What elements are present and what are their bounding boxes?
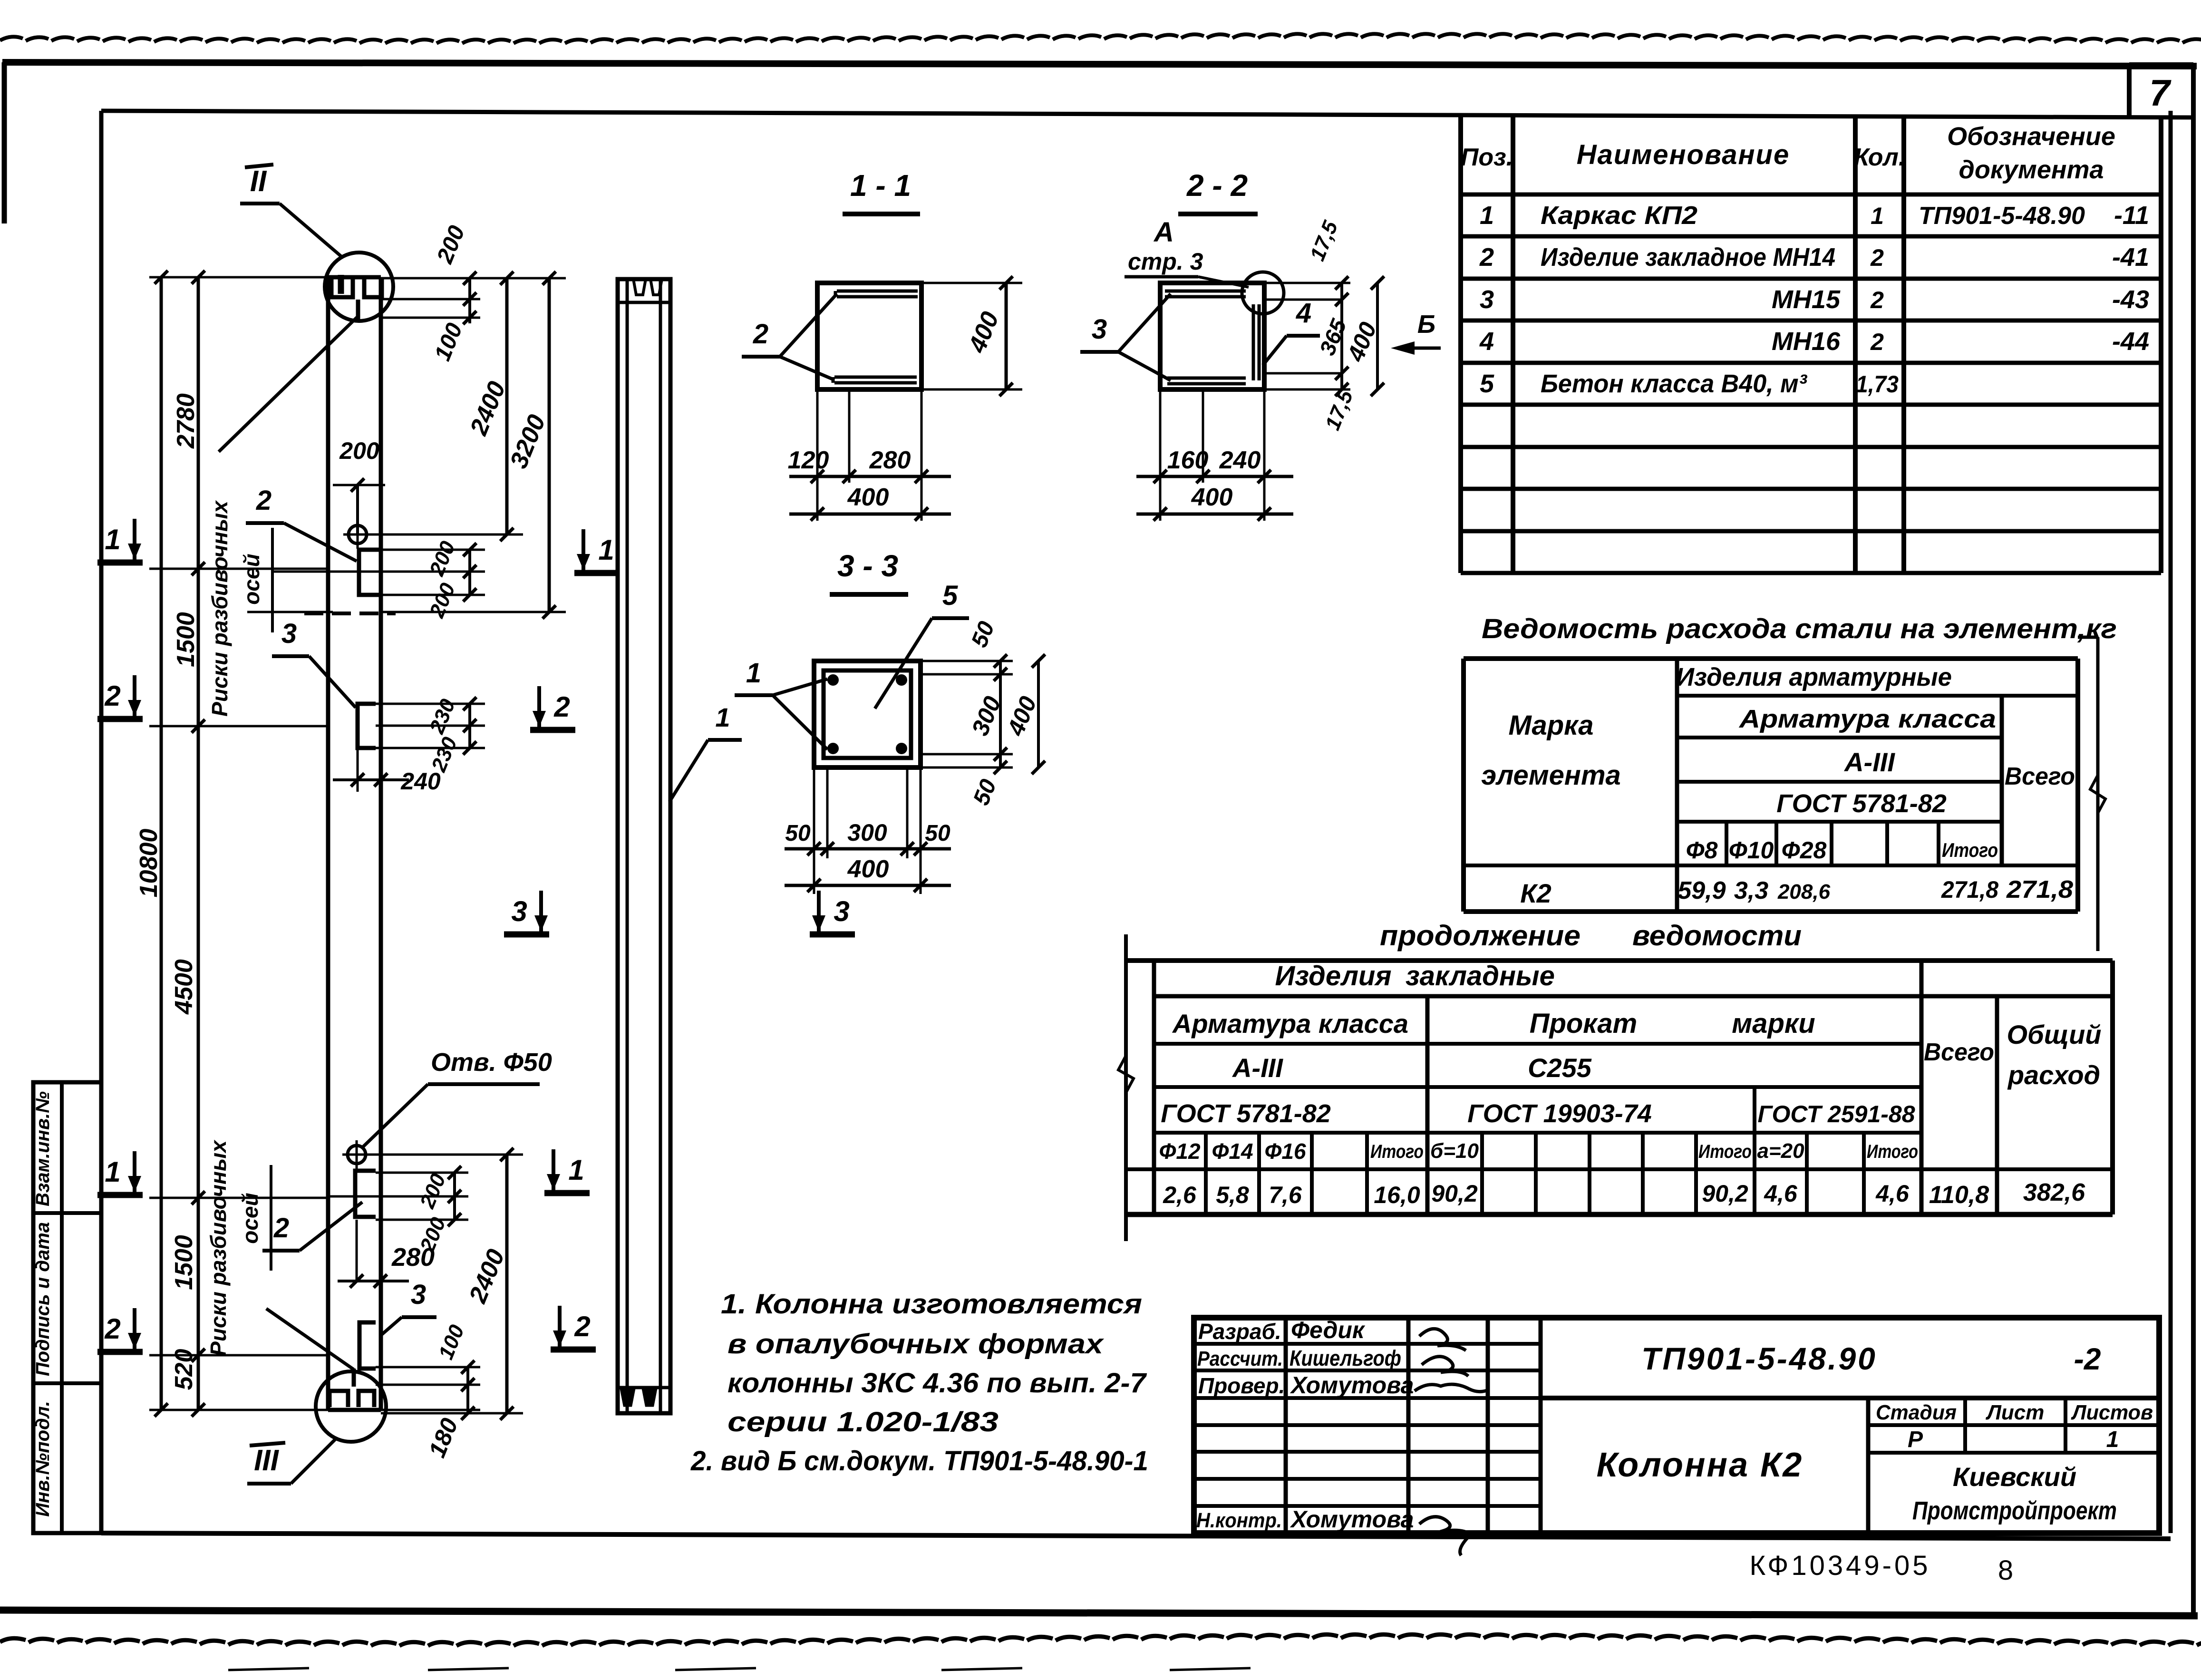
- svg-text:колонны 3КС 4.36 по вып. 2: колонны 3КС 4.36 по вып. 2-7: [727, 1368, 1147, 1398]
- svg-text:16,0: 16,0: [1374, 1182, 1420, 1208]
- svg-text:Инв.№подл.: Инв.№подл.: [32, 1401, 53, 1517]
- svg-text:продолжение: продолжение: [1380, 920, 1580, 952]
- svg-text:Н.контр.: Н.контр.: [1196, 1509, 1282, 1532]
- svg-text:7,6: 7,6: [1269, 1182, 1302, 1208]
- svg-text:Листов: Листов: [2071, 1401, 2153, 1424]
- svg-text:400: 400: [847, 855, 889, 883]
- svg-text:2: 2: [1870, 329, 1884, 355]
- svg-text:4: 4: [1479, 327, 1494, 356]
- svg-text:марки: марки: [1732, 1008, 1815, 1039]
- svg-text:240: 240: [400, 768, 441, 795]
- svg-text:закладные: закладные: [1406, 961, 1555, 991]
- svg-text:3: 3: [834, 895, 849, 927]
- svg-text:осей: осей: [239, 554, 264, 604]
- svg-text:1: 1: [568, 1154, 584, 1186]
- svg-text:3: 3: [1092, 314, 1107, 345]
- svg-text:1: 1: [105, 1156, 120, 1188]
- svg-text:Изделия арматурные: Изделия арматурные: [1676, 663, 1952, 691]
- svg-text:110,8: 110,8: [1929, 1181, 1989, 1209]
- svg-text:ГОСТ 5781-82: ГОСТ 5781-82: [1776, 789, 1947, 818]
- svg-text:10800: 10800: [135, 829, 163, 898]
- svg-text:II: II: [250, 165, 267, 198]
- svg-text:Лист: Лист: [1986, 1401, 2045, 1424]
- svg-text:Стадия: Стадия: [1876, 1401, 1957, 1424]
- svg-text:Взам.инв.№: Взам.инв.№: [32, 1091, 53, 1206]
- svg-text:Поз.: Поз.: [1461, 144, 1513, 171]
- svg-text:1: 1: [715, 702, 730, 732]
- svg-text:5,8: 5,8: [1216, 1182, 1249, 1208]
- svg-text:Подпись и дата: Подпись и дата: [32, 1222, 53, 1376]
- svg-text:в опалубочных формах: в опалубочных формах: [727, 1329, 1105, 1360]
- svg-text:Кол.: Кол.: [1854, 144, 1906, 171]
- svg-text:160: 160: [1167, 447, 1209, 474]
- svg-text:-44: -44: [2112, 327, 2149, 356]
- svg-text:Рассчит.: Рассчит.: [1197, 1347, 1283, 1370]
- svg-text:280: 280: [391, 1243, 435, 1272]
- svg-text:Колонна К2: Колонна К2: [1597, 1446, 1803, 1484]
- svg-text:Ведомость расхода стали: Ведомость расхода стали на элемент,кг: [1482, 613, 2117, 644]
- svg-text:Ф12: Ф12: [1159, 1139, 1200, 1164]
- svg-text:3 - 3: 3 - 3: [837, 549, 898, 583]
- svg-text:А-III: А-III: [1231, 1053, 1283, 1083]
- svg-text:-43: -43: [2112, 285, 2149, 314]
- svg-text:стр. 3: стр. 3: [1128, 248, 1203, 275]
- svg-text:4: 4: [1296, 298, 1311, 329]
- svg-text:Б: Б: [1417, 310, 1435, 339]
- svg-text:Ф10: Ф10: [1729, 837, 1774, 864]
- svg-text:ТП901-5-48.90: ТП901-5-48.90: [1641, 1341, 1877, 1376]
- svg-text:Марка: Марка: [1508, 710, 1593, 741]
- svg-text:4500: 4500: [170, 959, 198, 1015]
- svg-text:б=10: б=10: [1430, 1139, 1479, 1163]
- svg-text:Арматура класса: Арматура класса: [1738, 705, 1996, 733]
- svg-text:271,8: 271,8: [2006, 876, 2073, 903]
- svg-text:ведомости: ведомости: [1632, 920, 1802, 952]
- svg-text:300: 300: [847, 819, 887, 846]
- svg-text:3: 3: [411, 1279, 426, 1310]
- svg-text:-41: -41: [2112, 243, 2149, 272]
- svg-text:расход: расход: [2007, 1060, 2100, 1090]
- svg-text:Разраб.: Разраб.: [1198, 1319, 1281, 1344]
- svg-text:Каркас КП2: Каркас КП2: [1541, 201, 1697, 230]
- svg-text:Хомутова: Хомутова: [1290, 1372, 1414, 1398]
- svg-text:А: А: [1153, 217, 1174, 248]
- svg-text:4,6: 4,6: [1875, 1180, 1910, 1207]
- svg-text:2. вид Б см.докум. ТП901-5-: 2. вид Б см.докум. ТП901-5-48.90-1: [690, 1446, 1148, 1476]
- svg-text:2: 2: [574, 1311, 590, 1342]
- svg-text:120: 120: [788, 447, 829, 474]
- svg-text:Всего: Всего: [1924, 1039, 1994, 1066]
- svg-text:2780: 2780: [172, 393, 200, 449]
- svg-text:элемента: элемента: [1481, 760, 1621, 791]
- svg-text:1 - 1: 1 - 1: [850, 168, 911, 203]
- svg-text:2: 2: [753, 319, 768, 350]
- svg-text:серии 1.020-1/83: серии 1.020-1/83: [727, 1407, 999, 1437]
- svg-text:1,73: 1,73: [1856, 371, 1899, 398]
- svg-text:документа: документа: [1959, 155, 2104, 184]
- svg-text:3: 3: [281, 618, 297, 649]
- svg-text:Ф14: Ф14: [1212, 1139, 1253, 1164]
- svg-text:1. Колонна изготовляется: 1. Колонна изготовляется: [721, 1289, 1142, 1320]
- svg-text:Изделия: Изделия: [1275, 961, 1391, 991]
- svg-text:Отв. Ф50: Отв. Ф50: [431, 1048, 552, 1077]
- svg-text:2: 2: [1479, 243, 1494, 272]
- svg-text:1: 1: [746, 658, 761, 689]
- svg-text:2: 2: [104, 1313, 120, 1345]
- svg-text:Итого: Итого: [1370, 1141, 1424, 1162]
- svg-text:90,2: 90,2: [1431, 1180, 1478, 1207]
- svg-text:Хомутова: Хомутова: [1290, 1506, 1414, 1533]
- svg-text:Бетон класса В40, м³: Бетон класса В40, м³: [1541, 369, 1808, 398]
- svg-text:С255: С255: [1528, 1053, 1592, 1083]
- svg-text:Кишельгоф: Кишельгоф: [1290, 1346, 1401, 1370]
- svg-text:2 - 2: 2 - 2: [1186, 168, 1248, 203]
- svg-text:ГОСТ 5781-82: ГОСТ 5781-82: [1161, 1099, 1331, 1128]
- svg-text:50: 50: [925, 821, 950, 846]
- svg-text:2: 2: [273, 1213, 289, 1243]
- svg-text:8: 8: [1998, 1555, 2013, 1586]
- svg-text:200: 200: [339, 437, 379, 464]
- svg-text:5: 5: [1480, 369, 1494, 398]
- svg-text:280: 280: [869, 447, 911, 474]
- svg-text:5: 5: [942, 580, 958, 611]
- svg-text:2: 2: [104, 680, 120, 712]
- svg-text:59,9: 59,9: [1677, 877, 1726, 904]
- svg-text:520: 520: [170, 1349, 198, 1390]
- svg-text:1: 1: [1871, 203, 1884, 229]
- svg-text:a=20: a=20: [1757, 1139, 1804, 1163]
- svg-text:1500: 1500: [172, 612, 200, 667]
- svg-text:КФ10349-05: КФ10349-05: [1749, 1550, 1930, 1581]
- svg-text:Ф8: Ф8: [1686, 837, 1718, 864]
- svg-text:Ф16: Ф16: [1264, 1139, 1306, 1164]
- svg-text:2: 2: [1870, 287, 1884, 313]
- svg-text:2: 2: [256, 485, 271, 516]
- svg-text:Р: Р: [1908, 1427, 1923, 1452]
- svg-text:-11: -11: [2114, 201, 2149, 230]
- svg-text:Обозначение: Обозначение: [1947, 122, 2115, 151]
- svg-text:271,8: 271,8: [1941, 876, 1998, 903]
- svg-text:Итого: Итого: [1698, 1141, 1752, 1162]
- svg-text:2: 2: [1870, 244, 1884, 271]
- svg-text:3,3: 3,3: [1734, 877, 1768, 904]
- svg-text:Риски разбивочных: Риски разбивочных: [207, 500, 232, 717]
- svg-text:МН15: МН15: [1772, 285, 1841, 314]
- svg-text:Всего: Всего: [2005, 763, 2075, 790]
- svg-text:Провер.: Провер.: [1198, 1373, 1285, 1398]
- svg-text:208,6: 208,6: [1777, 880, 1831, 903]
- svg-text:МН16: МН16: [1772, 327, 1841, 356]
- svg-text:Общий: Общий: [2007, 1020, 2101, 1049]
- svg-text:Арматура класса: Арматура класса: [1172, 1009, 1408, 1039]
- svg-text:400: 400: [847, 484, 889, 511]
- svg-text:Федик: Федик: [1291, 1317, 1366, 1343]
- svg-text:1: 1: [1480, 201, 1494, 230]
- svg-text:ГОСТ 2591-88: ГОСТ 2591-88: [1757, 1101, 1915, 1127]
- svg-text:2,6: 2,6: [1163, 1182, 1197, 1208]
- svg-text:3: 3: [1480, 285, 1494, 314]
- svg-text:4,6: 4,6: [1764, 1180, 1798, 1207]
- svg-text:Ф28: Ф28: [1782, 837, 1827, 864]
- svg-text:-2: -2: [2074, 1342, 2101, 1376]
- svg-text:Наименование: Наименование: [1577, 139, 1790, 170]
- svg-text:7: 7: [2149, 72, 2172, 114]
- svg-text:ТП901-5-48.90: ТП901-5-48.90: [1919, 202, 2085, 230]
- svg-text:А-III: А-III: [1843, 747, 1895, 777]
- svg-text:382,6: 382,6: [2023, 1179, 2085, 1206]
- svg-text:1: 1: [105, 524, 120, 555]
- svg-text:К2: К2: [1520, 878, 1551, 908]
- svg-text:Итого: Итого: [1942, 839, 1998, 861]
- svg-text:400: 400: [1191, 484, 1233, 511]
- svg-text:50: 50: [785, 821, 811, 846]
- svg-text:Промстройпроект: Промстройпроект: [1912, 1496, 2117, 1525]
- svg-text:3: 3: [511, 895, 527, 927]
- svg-text:Изделие закладное МН14: Изделие закладное МН14: [1541, 243, 1835, 272]
- svg-text:Прокат: Прокат: [1530, 1008, 1638, 1039]
- svg-text:240: 240: [1219, 447, 1261, 474]
- svg-text:2: 2: [553, 691, 570, 723]
- svg-text:1500: 1500: [170, 1235, 198, 1290]
- svg-text:ГОСТ 19903-74: ГОСТ 19903-74: [1467, 1099, 1652, 1128]
- svg-text:1: 1: [2106, 1427, 2119, 1452]
- svg-text:Итого: Итого: [1867, 1141, 1918, 1162]
- svg-text:Киевский: Киевский: [1953, 1462, 2076, 1492]
- svg-text:Риски разбивочных: Риски разбивочных: [206, 1139, 231, 1356]
- svg-text:90,2: 90,2: [1702, 1180, 1748, 1207]
- svg-text:осей: осей: [238, 1193, 262, 1243]
- svg-text:1: 1: [598, 534, 614, 566]
- svg-text:III: III: [254, 1444, 279, 1477]
